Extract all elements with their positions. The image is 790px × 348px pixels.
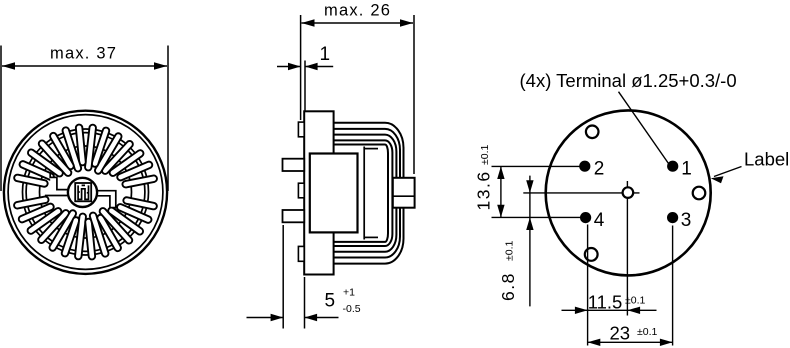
svg-text:1: 1 [320,44,331,65]
svg-text:3: 3 [681,210,692,231]
svg-text:max. 26: max. 26 [324,1,391,19]
svg-text:±0.1: ±0.1 [637,326,658,338]
svg-text:5: 5 [325,290,336,311]
svg-text:±0.1: ±0.1 [479,144,491,165]
svg-text:2: 2 [594,159,605,180]
svg-text:1: 1 [681,159,692,180]
svg-text:+1: +1 [343,287,355,299]
svg-text:Label: Label [744,149,789,170]
svg-text:-0.5: -0.5 [343,303,361,315]
svg-text:11.5: 11.5 [588,291,623,312]
svg-text:±0.1: ±0.1 [504,240,516,261]
svg-text:23: 23 [610,322,631,343]
svg-text:max. 37: max. 37 [50,44,117,62]
svg-text:6.8: 6.8 [498,272,518,301]
svg-text:4: 4 [594,210,605,231]
svg-text:13.6: 13.6 [474,170,494,210]
svg-text:±0.1: ±0.1 [625,295,646,307]
svg-text:(4x) Terminal ø1.25+0.3/-0: (4x) Terminal ø1.25+0.3/-0 [520,70,737,91]
